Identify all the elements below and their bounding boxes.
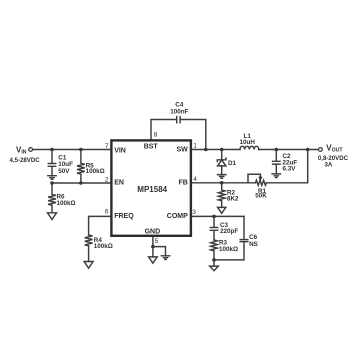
- svg-text:4,5-28VDC: 4,5-28VDC: [10, 157, 41, 164]
- wire FB net: [192, 182, 256, 184]
- svg-text:1: 1: [193, 143, 197, 150]
- wire C6 branch: [214, 216, 244, 266]
- wire VIN rail: [33, 149, 111, 151]
- svg-text:NS: NS: [249, 241, 258, 248]
- capacitor C2: [273, 150, 280, 174]
- svg-text:100kΩ: 100kΩ: [86, 168, 105, 175]
- svg-text:0,8-20VDC: 0,8-20VDC: [318, 155, 349, 162]
- ground R2 (triangle): [218, 207, 226, 213]
- wire FB to output divider: [267, 150, 308, 183]
- ground R4 (triangle): [84, 262, 93, 269]
- ground C1 (bar style): [48, 176, 56, 180]
- svg-text:220pF: 220pF: [220, 228, 238, 235]
- capacitor C1: [48, 150, 55, 176]
- svg-text:2: 2: [105, 176, 109, 183]
- wire GND pin: [153, 236, 166, 257]
- IC U1 MP1584 body: [111, 140, 190, 235]
- node C3/COMP: [212, 215, 216, 219]
- svg-text:5: 5: [155, 238, 159, 245]
- svg-text:8: 8: [154, 132, 158, 139]
- terminal VIN: [29, 148, 33, 152]
- node R5/VIN: [79, 148, 83, 152]
- node FB divider/VOUT: [306, 148, 310, 152]
- terminal VOUT: [319, 148, 323, 152]
- node R6/EN: [50, 181, 54, 185]
- wire COMP net: [192, 215, 244, 217]
- capacitor C6: [240, 240, 248, 242]
- svg-text:FREQ: FREQ: [114, 213, 134, 220]
- ground D1 (bar style): [218, 175, 226, 179]
- svg-text:MP1584: MP1584: [137, 185, 167, 194]
- svg-text:7: 7: [105, 143, 109, 150]
- svg-text:COMP: COMP: [167, 213, 188, 220]
- resistor R4: [85, 235, 93, 262]
- wire SW rail left of L1: [192, 149, 240, 151]
- svg-text:D1: D1: [228, 160, 237, 167]
- svg-text:8K2: 8K2: [227, 196, 239, 203]
- node R2/FB: [220, 181, 224, 185]
- node R5/EN: [79, 181, 83, 185]
- svg-text:EN: EN: [114, 179, 124, 186]
- wire BST to C4: [151, 120, 177, 141]
- ground R6 (triangle): [48, 213, 57, 220]
- diode D1 schottky: [221, 150, 223, 160]
- ground C2 (bar style): [272, 174, 280, 178]
- wire EN net: [52, 182, 110, 184]
- svg-text:BST: BST: [144, 143, 159, 150]
- svg-text:3: 3: [192, 209, 196, 216]
- node C4/SW: [204, 148, 208, 152]
- svg-text:C4: C4: [175, 101, 184, 108]
- svg-text:3A: 3A: [325, 162, 333, 169]
- svg-text:100kΩ: 100kΩ: [57, 200, 76, 207]
- wire C4 to SW node: [180, 120, 206, 150]
- svg-text:6: 6: [105, 209, 109, 216]
- svg-text:50V: 50V: [58, 168, 70, 175]
- inductor L1: [240, 146, 259, 149]
- svg-text:SW: SW: [177, 146, 189, 153]
- node R3/C6 ground: [212, 258, 216, 262]
- svg-text:100nF: 100nF: [170, 109, 188, 116]
- wire FREQ net: [89, 216, 111, 235]
- svg-text:6.3V: 6.3V: [283, 165, 297, 172]
- junction dots: [50, 148, 309, 262]
- svg-text:C6: C6: [249, 234, 258, 241]
- resistor R5: [77, 150, 85, 184]
- capacitor C4: [177, 117, 180, 123]
- node C2/VOUT: [275, 148, 279, 152]
- svg-text:100kΩ: 100kΩ: [219, 246, 238, 253]
- node D1/SW: [220, 148, 224, 152]
- arrowhead R1 wiper: [258, 177, 262, 182]
- svg-text:4: 4: [193, 176, 197, 183]
- svg-text:GND: GND: [145, 229, 161, 236]
- svg-text:FB: FB: [178, 179, 187, 186]
- node C1/VIN: [50, 148, 54, 152]
- ground GND pin right (bar style): [161, 256, 169, 260]
- potentiometer R1 wiper loop: [248, 174, 260, 183]
- ground GND pin left (triangle): [149, 257, 158, 263]
- svg-text:VIN: VIN: [114, 148, 126, 155]
- resistor R2: [218, 183, 225, 208]
- resistor R6: [48, 183, 56, 213]
- svg-text:10uH: 10uH: [239, 139, 255, 146]
- capacitor C3: [210, 216, 217, 240]
- wire SW rail right of L1: [259, 149, 319, 151]
- svg-text:50K: 50K: [255, 193, 267, 200]
- potentiometer R1 body: [256, 180, 267, 185]
- svg-text:100kΩ: 100kΩ: [94, 243, 113, 250]
- resistor R3: [211, 240, 218, 260]
- ground C3/R3 (triangle): [210, 266, 219, 271]
- node GND split: [151, 245, 155, 249]
